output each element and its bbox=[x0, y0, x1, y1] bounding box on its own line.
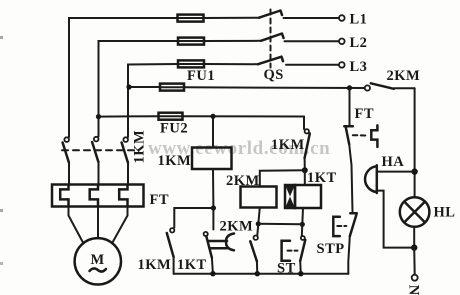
FT heater element 2 bbox=[90, 185, 98, 206]
wire L3 phase line bbox=[128, 64, 339, 137]
svg-text:1KM: 1KM bbox=[271, 137, 305, 153]
svg-text:1KT: 1KT bbox=[307, 170, 337, 186]
terminal L1 bbox=[339, 12, 367, 28]
wire right rail down to lamp bbox=[414, 88, 416, 197]
wire 2KM coil down bbox=[258, 208, 260, 224]
delay symbol of 1KT contact bbox=[209, 234, 234, 251]
node bell tap bbox=[411, 168, 417, 174]
wire L1 phase line bbox=[69, 18, 339, 137]
wire FT to motor right bbox=[113, 207, 128, 243]
fuse FU2 upper (line 4) bbox=[160, 84, 184, 91]
mechanical link dashed 1KM bbox=[62, 149, 134, 151]
svg-text:2KM: 2KM bbox=[220, 219, 254, 235]
contact 1KT delayed NO bbox=[204, 208, 214, 274]
contact 1KM auxiliary NO (bottom left) bbox=[167, 228, 175, 274]
wire to 1KM coil bbox=[212, 116, 214, 147]
node FU2 line to 1KM coil bbox=[210, 114, 215, 119]
pushbutton STP contact NC bbox=[348, 213, 357, 273]
contactor 1KM main contact pole 2 bbox=[92, 137, 98, 162]
node line5 tap on L2 bbox=[96, 114, 101, 119]
node coils top bbox=[302, 167, 308, 173]
wire node to 1KT coil bbox=[304, 170, 306, 185]
wire bell to node bbox=[378, 171, 415, 173]
switch QS pole 2 bbox=[261, 34, 284, 41]
svg-text:QS: QS bbox=[264, 67, 284, 83]
motor M bbox=[75, 238, 121, 284]
svg-text:HL: HL bbox=[434, 205, 456, 221]
wire pole1 to FT bbox=[68, 163, 70, 185]
contact 1KM auxiliary NO (top right, seal-in) bbox=[304, 117, 310, 171]
contact 2KM NO (top right) bbox=[365, 83, 415, 90]
svg-text:STP: STP bbox=[317, 241, 345, 257]
svg-text:M: M bbox=[91, 252, 105, 268]
FT heater element 3 bbox=[119, 185, 127, 206]
terminal L3 bbox=[339, 59, 367, 75]
lamp HL bbox=[400, 197, 430, 227]
FT trip symbol bbox=[371, 125, 377, 146]
pushbutton ST contact bbox=[300, 224, 305, 273]
svg-text:L3: L3 bbox=[350, 59, 368, 75]
bottom rail bbox=[174, 273, 349, 275]
coil 2KM bbox=[241, 187, 277, 208]
wire joining coil bottoms bbox=[258, 223, 302, 226]
wire 1KM coil down bbox=[212, 169, 214, 208]
scan speck left edge 2 bbox=[0, 209, 3, 212]
thermal relay FT box bbox=[52, 185, 144, 207]
terminal L2 bbox=[339, 35, 367, 51]
svg-text:HA: HA bbox=[382, 154, 405, 170]
rail node 1KT bbox=[210, 271, 215, 276]
fuse FU1 pole 1 bbox=[178, 15, 204, 22]
wire line4 down to FT contact bbox=[349, 88, 351, 125]
rail node ST bbox=[298, 271, 303, 276]
wire control feed from L3 (line 4) bbox=[129, 87, 365, 88]
FT trip linkage dashed bbox=[353, 134, 368, 136]
wire to N terminal bbox=[413, 248, 416, 275]
wire FT to motor left bbox=[69, 207, 84, 243]
scan speck left edge 3 bbox=[0, 262, 3, 265]
wire lamp bottom bbox=[413, 227, 415, 248]
fuse FU2 lower bbox=[159, 113, 183, 120]
svg-text:FT: FT bbox=[355, 106, 375, 122]
wire pole2 to FT bbox=[98, 162, 100, 185]
coil 1KM bbox=[192, 148, 232, 170]
svg-text:FU2: FU2 bbox=[160, 121, 188, 137]
wire 1KT coil down bbox=[301, 208, 304, 224]
node line4 to FT branch bbox=[347, 85, 352, 90]
wire FT to motor mid bbox=[97, 207, 99, 239]
FT heater element 1 bbox=[60, 185, 68, 206]
scan speck left edge 1 bbox=[0, 36, 3, 39]
svg-text:1KM: 1KM bbox=[132, 130, 148, 164]
svg-text:N: N bbox=[406, 285, 422, 295]
bell HA bbox=[365, 165, 377, 193]
coil 1KT time relay bbox=[285, 185, 321, 208]
svg-text:2KM: 2KM bbox=[226, 173, 260, 189]
rail node 2KM bbox=[255, 271, 260, 276]
wire FT contact down to STP bbox=[349, 144, 352, 211]
wire node to 2KM coil bbox=[260, 170, 305, 186]
svg-text:FU1: FU1 bbox=[187, 68, 215, 84]
node line4 tap on L3 bbox=[126, 84, 131, 89]
node below 2KM coil bbox=[256, 221, 261, 226]
switch QS link dashed bbox=[270, 10, 272, 68]
pushbutton ST actuator bbox=[282, 241, 298, 261]
wire bell bottom to N rail bbox=[378, 191, 415, 248]
svg-text:1KT: 1KT bbox=[177, 257, 207, 273]
wire control feed from L2 (line 5) bbox=[99, 115, 305, 117]
svg-text:2KM: 2KM bbox=[387, 68, 421, 84]
wire node to 1KM aux contact bbox=[174, 208, 213, 228]
wire pole3 to FT bbox=[127, 163, 129, 185]
contact 2KM NO (bottom) bbox=[250, 224, 258, 274]
node below 1KM coil bbox=[211, 205, 216, 210]
pushbutton STP actuator bbox=[333, 217, 346, 236]
contactor 1KM main contact pole 1 bbox=[63, 137, 69, 162]
node lamp bottom bbox=[411, 244, 417, 250]
contactor 1KM main contact pole 3 bbox=[122, 137, 128, 162]
switch QS pole 3 bbox=[258, 57, 283, 64]
svg-text:1KM: 1KM bbox=[138, 257, 172, 273]
fuse FU1 pole 2 bbox=[178, 38, 204, 45]
svg-text:L1: L1 bbox=[350, 12, 368, 28]
svg-text:1KM: 1KM bbox=[158, 153, 192, 169]
contact FT NC (alarm) bbox=[344, 126, 353, 144]
node below 1KT coil bbox=[300, 222, 305, 227]
fuse FU1 pole 3 bbox=[178, 60, 204, 67]
wire L2 phase line bbox=[99, 41, 340, 137]
svg-text:L2: L2 bbox=[350, 35, 368, 51]
svg-text:FT: FT bbox=[150, 192, 170, 208]
terminal N bbox=[412, 275, 418, 281]
switch QS pole 1 bbox=[259, 11, 282, 18]
